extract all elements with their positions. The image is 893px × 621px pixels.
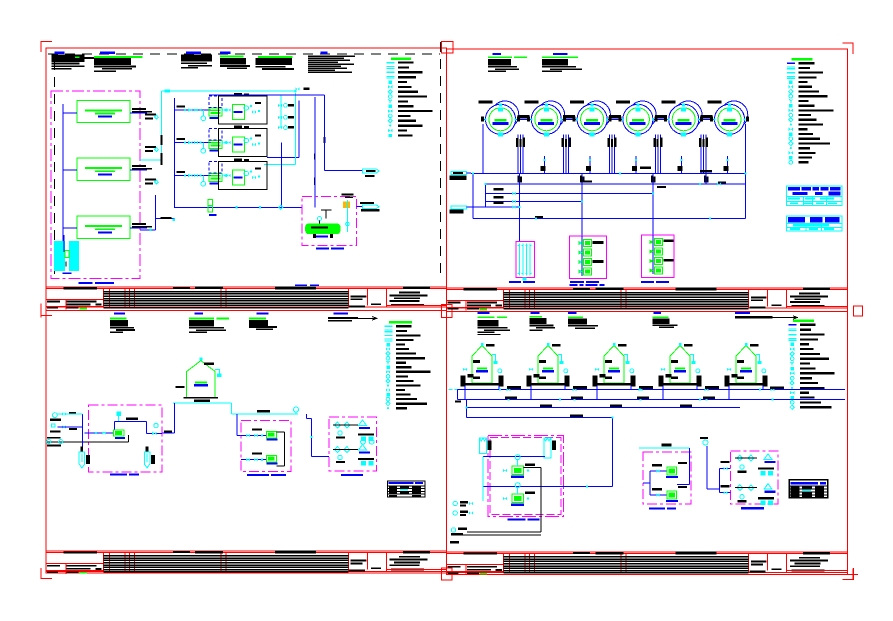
- drop valve hatch: [608, 138, 611, 147]
- tank discharge drop pipes: [482, 124, 484, 174]
- sheet A note block 3: [186, 52, 201, 54]
- legend row: [789, 80, 792, 83]
- sheet D manifold left risers: [457, 390, 459, 400]
- fold dashed line between top sheets: [439, 42, 441, 275]
- title block left cell rows: [446, 300, 503, 302]
- sheet C odour package box (magenta): [329, 417, 376, 471]
- valve column right of modules: [280, 95, 282, 127]
- sludge tank ST5: [725, 343, 768, 387]
- sheet A note block 6 list: [321, 52, 328, 54]
- title block right cell text: [399, 556, 420, 558]
- title block header bars: [464, 552, 498, 554]
- separator level gauge (yellow): [343, 202, 350, 208]
- legend title: [389, 321, 412, 324]
- title block right cell text: [799, 557, 820, 559]
- title block header bars: [464, 288, 498, 290]
- sheet B collector line: [473, 218, 745, 220]
- tank ST1 supports: [461, 376, 466, 387]
- sheet D manifold line 3: [467, 406, 740, 408]
- legend row: [790, 123, 792, 125]
- tank ST2 base valves: [529, 368, 533, 372]
- feed pump (green): [114, 430, 124, 436]
- sheet D border frame: [446, 312, 847, 575]
- legend row: [791, 387, 793, 389]
- module 3 hood (blue dashed): [209, 162, 222, 174]
- sheet D note block 1: [477, 312, 489, 314]
- module 1 instruments: [244, 106, 248, 110]
- transfer pump P1 (green): [584, 240, 592, 247]
- treatment module 3 pipe: [175, 175, 219, 177]
- export arrow flag upper: [363, 169, 379, 173]
- module 1 hood (blue dashed): [209, 96, 222, 108]
- legend row: [789, 104, 792, 107]
- title block left cell rows: [46, 563, 103, 565]
- module 2 drain pump: [201, 149, 206, 154]
- title block outline: [446, 551, 847, 553]
- sheet A border frame: [46, 48, 446, 311]
- package drain piping (black): [47, 441, 129, 443]
- module 2 hood (blue dashed): [209, 129, 222, 141]
- sludge tank ST4: [659, 343, 702, 387]
- sample towers (cyan): [79, 452, 85, 468]
- separator outlet pipe: [357, 205, 363, 207]
- transfer pump P2 (green): [584, 249, 592, 256]
- sheet D note block 2: [530, 312, 539, 314]
- module feed labels left: [145, 113, 156, 115]
- sheet D data table: [789, 480, 828, 498]
- package inlet stack (cyan): [116, 412, 121, 417]
- package label below: [110, 473, 127, 475]
- tower outlet label: [79, 282, 93, 284]
- corner tick marks: [41, 42, 52, 53]
- module 3 drain pump: [201, 182, 206, 187]
- package internal piping: [483, 455, 545, 457]
- tank T4 label: [616, 100, 630, 103]
- legend row: [789, 161, 793, 165]
- cyan header end valve cluster: [295, 87, 299, 91]
- tank ST3 vent piping: [624, 355, 628, 363]
- sheet A separator package box (magenta): [302, 197, 357, 246]
- dosing pump 1 (green): [267, 431, 277, 438]
- legend row: [789, 89, 793, 93]
- legend row: [386, 370, 390, 374]
- drop pipe group: [654, 135, 656, 174]
- pipe riser to plant: [174, 403, 176, 433]
- tank ST4 base valves: [661, 368, 665, 372]
- tank interconnect labels: [517, 115, 529, 118]
- pump package 2 label: [641, 281, 654, 283]
- package drain loop (black): [540, 468, 542, 532]
- separator vent riser: [347, 200, 349, 232]
- dosing package internal pipe: [284, 432, 286, 466]
- legend row: [790, 372, 794, 376]
- legend row: [388, 129, 392, 133]
- package pump 1 (green): [650, 470, 667, 472]
- sheet D transfer loop: [467, 417, 613, 419]
- sheet B filter package box (magenta): [516, 242, 535, 278]
- legend row: [388, 90, 392, 94]
- legend row: [789, 334, 797, 335]
- sheet A return header: [267, 156, 299, 158]
- legend row: [789, 113, 793, 117]
- odour package feed: [719, 469, 721, 493]
- sheet D manifold line 1: [458, 389, 845, 391]
- title block right cell text: [399, 292, 420, 294]
- legend row: [386, 388, 390, 392]
- legend row: [789, 156, 792, 159]
- sheet A note block 4: [220, 52, 231, 54]
- sheet B data table 2 (cyan): [787, 216, 842, 231]
- sheet A separator pipe: [175, 206, 302, 208]
- title block hatch stripes: [504, 292, 749, 294]
- sheet A supply unit 3 (green): [77, 216, 130, 238]
- tank drain stub: [543, 156, 545, 174]
- odour package label: [341, 474, 363, 476]
- legend row: [789, 128, 793, 132]
- sheet B manifold line 5: [467, 206, 520, 208]
- sheet B manifold line 3: [485, 193, 653, 195]
- title block middle cell text: [351, 295, 367, 297]
- sheet A fold dashed line horizontal: [48, 53, 440, 55]
- legend row: [787, 72, 795, 73]
- sheet B manifold line 2: [485, 183, 745, 185]
- odour package label: [741, 507, 764, 509]
- title block hatch stripes: [504, 556, 749, 558]
- tank roof vent (cyan): [215, 370, 219, 375]
- legend row: [789, 141, 793, 145]
- title block left cell rows: [446, 564, 503, 566]
- hatch marks on cyan riser: [161, 135, 163, 145]
- tank T2 label: [524, 100, 538, 103]
- legend row: [388, 114, 392, 118]
- module 2 filter vessel (green): [232, 137, 244, 152]
- title block header bars: [63, 551, 97, 553]
- sheet D note block 5: [735, 312, 750, 314]
- digester tank T6: [708, 100, 750, 136]
- module 1 skid outline: [219, 96, 268, 124]
- legend row: [789, 94, 793, 98]
- dosing pump P7 (green): [655, 258, 663, 265]
- thickener package label: [507, 519, 525, 521]
- sheet C data table: [388, 481, 426, 497]
- title block dividers: [103, 553, 105, 572]
- legend row: [386, 402, 390, 406]
- legend row: [389, 80, 392, 83]
- sheet D inlet line from battery limit: [449, 389, 462, 391]
- module 1 filter vessel (green): [232, 104, 244, 119]
- sheet B inlet flag 2: [451, 206, 466, 209]
- sheet A lower branch: [155, 195, 157, 230]
- title block header bars: [63, 287, 97, 289]
- sheet D odour package box (magenta): [731, 451, 779, 504]
- drop pipe group: [517, 135, 519, 174]
- legend row: [387, 72, 395, 73]
- manifold labels: [493, 188, 503, 190]
- tank drain stub: [681, 156, 683, 174]
- dosing pump P8 (green): [655, 267, 663, 274]
- dosing pump P6 (green): [655, 248, 663, 255]
- module 3 filter vessel (green): [232, 170, 244, 185]
- drop valve hatch: [699, 138, 702, 147]
- module 2 dosing unit (green): [209, 141, 222, 149]
- odour unit 2: [335, 447, 341, 453]
- tank ST5 supports: [725, 376, 730, 387]
- drop valve hatch: [653, 138, 656, 147]
- legend row: [790, 405, 794, 409]
- title block dividers: [503, 290, 505, 309]
- legend row: [789, 132, 792, 135]
- legend row: [789, 137, 793, 141]
- sheet A supply unit 1 (green): [77, 100, 130, 122]
- module 1 inlet valves: [188, 108, 192, 112]
- legend row: [789, 338, 797, 339]
- legend row: [791, 396, 794, 399]
- manifold riser b: [484, 184, 486, 207]
- riser isolation valve hatches: [518, 175, 520, 182]
- module 3 inlet valves: [188, 174, 192, 178]
- title block green stamp: [79, 572, 86, 574]
- filter cartridges (cyan): [519, 244, 521, 276]
- title block dividers: [503, 554, 505, 573]
- riser to export: [314, 97, 316, 207]
- title block middle cell text: [751, 296, 767, 298]
- sludge tank ST3: [593, 343, 636, 387]
- legend row: [387, 384, 389, 386]
- tank ST3 supports: [593, 376, 598, 387]
- legend row: [789, 151, 793, 155]
- sheet C receiving package box (magenta): [88, 405, 162, 472]
- digester tank T1: [479, 100, 521, 136]
- legend row: [388, 85, 392, 89]
- legend row: [790, 147, 792, 149]
- sheet B data table 1 (cyan): [787, 186, 842, 206]
- legend row: [789, 85, 793, 89]
- manifold riser d: [581, 174, 583, 236]
- legend row: [388, 109, 392, 113]
- tank T5 label: [662, 100, 676, 103]
- sheet C dosing package box (magenta): [241, 420, 291, 471]
- module 2 outlet valves: [222, 141, 226, 145]
- title block middle cell text: [751, 561, 767, 563]
- supply branch pipe: [63, 112, 77, 114]
- title block dividers: [103, 289, 105, 308]
- legend row: [789, 109, 793, 113]
- sludge tank ST1: [461, 343, 504, 387]
- sheet D note block 3: [568, 312, 577, 314]
- dosing pump 2 (green): [267, 455, 277, 462]
- sheet A note block 5: [258, 56, 293, 58]
- legend row: [389, 134, 392, 137]
- legend title: [793, 320, 814, 323]
- transfer pump P3 (green): [584, 259, 592, 266]
- sheet B inlet flag 1: [451, 171, 466, 174]
- module 3 outlet valves: [222, 174, 226, 178]
- drop pipe group: [563, 135, 565, 174]
- sheet A note block 2: [100, 52, 115, 54]
- legend title: [391, 57, 411, 60]
- module 2 skid outline: [219, 129, 268, 157]
- title block outline: [446, 287, 847, 289]
- legend row: [386, 361, 390, 365]
- transfer pump on line (cyan): [294, 407, 299, 412]
- legend row: [386, 375, 390, 379]
- legend row: [387, 76, 395, 77]
- legend row: [787, 76, 795, 77]
- tank T6 label: [708, 100, 722, 103]
- legend row: [388, 100, 392, 104]
- tank drain stub: [635, 156, 637, 174]
- title block outline: [46, 286, 446, 288]
- tank ST2 vent piping: [558, 355, 562, 363]
- sludge tank ST2: [527, 343, 570, 387]
- tank ST5 base valves: [727, 368, 731, 372]
- odour unit 1: [335, 422, 341, 428]
- legend row: [384, 326, 392, 327]
- tank T1 label: [479, 100, 493, 103]
- outlet pipe with label: [130, 227, 147, 229]
- outlet pipe with label: [130, 169, 147, 171]
- drop valve hatch: [516, 138, 519, 147]
- sheet C note block 1: [114, 312, 125, 314]
- manifold riser e: [652, 174, 654, 236]
- title block green stamp: [480, 573, 487, 575]
- legend row: [791, 367, 794, 370]
- branch to dosing package: [236, 414, 238, 436]
- tank ST5 vent piping: [756, 355, 760, 363]
- title block outline: [46, 550, 446, 552]
- sheet C inlet instrument row 2: [51, 424, 55, 427]
- sheet A supply feed header pipe: [62, 104, 64, 256]
- legend row: [790, 391, 794, 395]
- module 3 skid outline: [219, 162, 268, 190]
- sheet B manifold line 4: [485, 201, 582, 203]
- dosing pump P5 (green): [655, 239, 663, 246]
- sheet C note block 3: [256, 312, 268, 314]
- module 1 dosing unit (green): [209, 108, 222, 116]
- title block right cell text: [799, 293, 820, 295]
- sheet A blue feed riser: [174, 98, 176, 208]
- legend row: [387, 66, 395, 67]
- sheet B note block 2: [553, 53, 568, 55]
- export pipe upper: [325, 170, 363, 172]
- sheet A fold dashed line vertical left: [54, 60, 56, 281]
- filter package label: [509, 281, 521, 283]
- sheet D note block 4: [653, 312, 660, 314]
- tank drop pipes: [464, 386, 466, 400]
- title block middle cell text: [351, 560, 367, 562]
- tank T3 label: [570, 100, 584, 103]
- sheet C note block 2: [195, 312, 203, 314]
- tank ST1 base valves: [463, 368, 467, 372]
- sheet B manifold line 1: [471, 173, 746, 175]
- legend row: [787, 63, 795, 64]
- dosing line 1: [241, 435, 266, 437]
- dosing package label: [247, 474, 269, 476]
- legend row: [384, 329, 392, 330]
- legend row: [389, 125, 391, 127]
- legend row: [790, 381, 794, 385]
- legend row: [789, 328, 797, 329]
- legend row: [384, 339, 392, 340]
- sheet A note block 1: [55, 52, 65, 54]
- tank ST3 base valves: [595, 368, 599, 372]
- title block left cell rows: [46, 299, 103, 301]
- legend row: [789, 324, 797, 325]
- sheet B tank interconnect line: [483, 118, 744, 120]
- dosing line 2: [241, 459, 266, 461]
- package inlet pipe: [563, 485, 612, 487]
- title block green stamp: [480, 309, 487, 311]
- separator top piping: [321, 210, 331, 218]
- manifold labels: [507, 386, 521, 389]
- manifold riser c: [519, 174, 521, 242]
- legend row: [790, 347, 794, 351]
- sheet D left instrument rows: [453, 501, 457, 505]
- tank ST1 vent piping: [492, 355, 496, 363]
- tank ST4 supports: [659, 376, 664, 387]
- legend row: [387, 62, 395, 63]
- polymer towers (cyan): [479, 438, 486, 453]
- sheet C mixing tank (green): [187, 361, 216, 398]
- digester tank T2: [524, 100, 566, 136]
- legend row: [386, 366, 389, 369]
- inline filter (green): [208, 200, 213, 206]
- legend row: [789, 99, 793, 103]
- sheet C inlet instrument row 3: [47, 440, 51, 444]
- legend row: [386, 347, 390, 351]
- legend row: [386, 379, 390, 383]
- supply header to pump package (cyan): [639, 447, 689, 449]
- package pump 2 (green): [650, 494, 667, 496]
- module 2 instruments: [244, 138, 248, 142]
- sheet B border frame: [446, 49, 847, 312]
- sheet A supply unit 2 (green): [77, 158, 130, 180]
- legend row: [386, 356, 390, 360]
- sheet D thickener package box (magenta, double): [488, 435, 564, 516]
- treatment module 2 pipe: [175, 142, 219, 144]
- legend row: [790, 401, 794, 405]
- legend row: [790, 352, 794, 356]
- drop pipe group: [609, 135, 611, 174]
- digester tank T4: [616, 100, 658, 136]
- sheet B note block 1: [493, 53, 502, 55]
- odour scrubber unit 1: [737, 455, 743, 461]
- legend row: [787, 67, 795, 68]
- legend row: [386, 352, 390, 356]
- legend row: [386, 393, 389, 396]
- package label below: [316, 247, 329, 249]
- supply branch pipe: [63, 169, 77, 171]
- module 2 inlet valves: [188, 141, 192, 145]
- module 1 drain pump: [201, 116, 206, 121]
- tank ST4 vent piping: [690, 355, 694, 363]
- module 3 instruments: [244, 171, 248, 175]
- separator vessel (green): [308, 224, 339, 234]
- sheet A battery limit box (magenta): [51, 91, 140, 279]
- sheet D manifold line 2: [458, 399, 845, 401]
- legend row: [388, 119, 392, 123]
- sheet D pump package box (magenta): [643, 452, 691, 504]
- legend row: [387, 407, 389, 409]
- tank drain stub: [589, 156, 591, 174]
- module 3 dosing unit (green): [209, 174, 222, 182]
- outlet pipe with label: [130, 112, 147, 114]
- legend row: [791, 343, 794, 346]
- drop valve hatch: [562, 138, 565, 147]
- sheet B pump package box 2 (magenta): [641, 235, 673, 277]
- tank labels: [204, 363, 214, 365]
- legend row: [789, 118, 793, 122]
